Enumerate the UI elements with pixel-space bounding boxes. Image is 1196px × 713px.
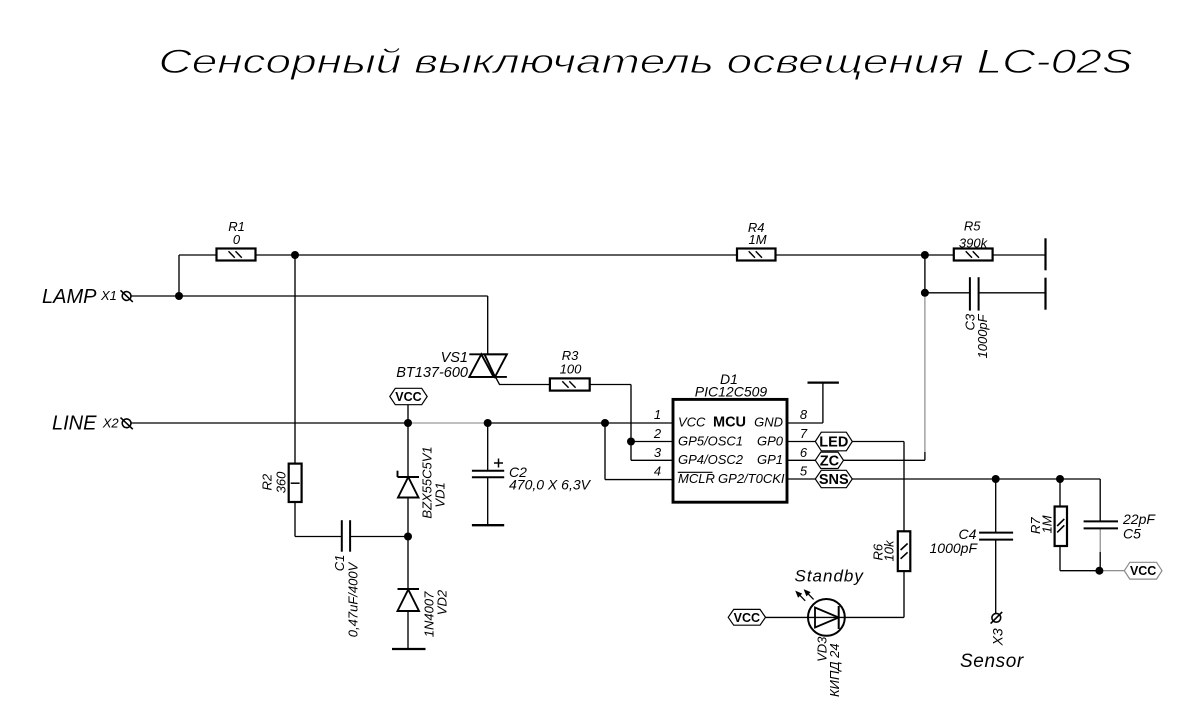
svg-text:470,0 X 6,3V: 470,0 X 6,3V — [509, 477, 592, 493]
svg-text:390k: 390k — [959, 235, 989, 250]
svg-text:VD1: VD1 — [433, 482, 448, 507]
svg-text:4: 4 — [654, 464, 661, 479]
svg-text:MCU: MCU — [713, 415, 746, 431]
svg-text:Standby: Standby — [795, 567, 865, 586]
svg-text:BT137-600: BT137-600 — [396, 365, 468, 381]
svg-text:LAMP: LAMP — [42, 286, 97, 308]
svg-text:LINE: LINE — [52, 413, 97, 435]
svg-text:R2: R2 — [259, 473, 274, 490]
svg-text:VCC: VCC — [395, 390, 421, 404]
svg-text:VCC: VCC — [734, 611, 760, 625]
svg-text:1M: 1M — [1040, 515, 1055, 533]
svg-text:10k: 10k — [882, 539, 897, 561]
svg-text:2: 2 — [653, 426, 662, 441]
svg-text:100: 100 — [560, 362, 582, 377]
svg-text:GP4/OSC2: GP4/OSC2 — [678, 452, 744, 467]
svg-text:7: 7 — [800, 426, 808, 441]
svg-text:R5: R5 — [964, 219, 981, 234]
svg-text:MCLR: MCLR — [678, 471, 715, 486]
svg-text:LED: LED — [819, 435, 848, 451]
svg-text:VS1: VS1 — [441, 350, 468, 366]
svg-text:1000pF: 1000pF — [975, 313, 990, 358]
svg-text:GP0: GP0 — [757, 433, 784, 448]
svg-text:X3: X3 — [990, 628, 1006, 646]
svg-text:1000pF: 1000pF — [930, 540, 979, 556]
svg-text:GND: GND — [754, 415, 783, 430]
svg-text:X2: X2 — [102, 416, 120, 431]
svg-text:C5: C5 — [1123, 526, 1141, 542]
svg-text:GP1: GP1 — [757, 452, 783, 467]
svg-text:5: 5 — [800, 464, 808, 479]
svg-text:X1: X1 — [100, 288, 117, 303]
svg-text:0: 0 — [233, 232, 241, 247]
svg-text:1M: 1M — [748, 232, 766, 247]
svg-text:0,47uF/400V: 0,47uF/400V — [346, 561, 361, 637]
svg-text:1: 1 — [654, 407, 661, 422]
svg-text:ZC: ZC — [820, 454, 840, 470]
svg-text:Sensor: Sensor — [960, 651, 1024, 672]
svg-text:VCC: VCC — [678, 415, 706, 430]
svg-text:3: 3 — [654, 445, 662, 460]
svg-text:6: 6 — [800, 445, 808, 460]
svg-text:GP2/T0CKI: GP2/T0CKI — [718, 471, 785, 486]
svg-text:КИПД 24: КИПД 24 — [827, 643, 842, 697]
svg-text:SNS: SNS — [819, 472, 849, 488]
svg-text:VD2: VD2 — [435, 589, 450, 615]
svg-text:VCC: VCC — [1130, 564, 1156, 578]
svg-text:Сенсорный выключатель освещени: Сенсорный выключатель освещения LC-02S — [159, 43, 1133, 81]
svg-text:360: 360 — [273, 471, 288, 493]
svg-text:GP5/OSC1: GP5/OSC1 — [678, 433, 743, 448]
svg-text:8: 8 — [800, 407, 808, 422]
svg-text:PIC12C509: PIC12C509 — [695, 383, 768, 399]
